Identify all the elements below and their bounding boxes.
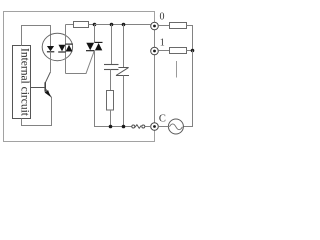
- wire triac MT2 lead: [94, 25, 96, 43]
- wire LED cathode down to transistor collector: [50, 52, 52, 72]
- LED D1: [47, 46, 54, 52]
- wire terminal 0 to load resistor: [158, 25, 169, 27]
- top rail: [95, 24, 151, 26]
- wire bottom rail to terminal C: [145, 126, 151, 128]
- wire internal box top to LED anode: [22, 26, 51, 47]
- wire AC source to terminal C: [158, 126, 168, 128]
- wire terminal 1 to load resistor: [158, 50, 169, 52]
- wire capacitor top lead: [111, 25, 113, 65]
- node junction surge absorber bottom: [122, 125, 126, 129]
- node junction right rail: [191, 49, 195, 53]
- wire terminal chain vertical: [154, 30, 156, 123]
- phototriac U1: [58, 44, 73, 52]
- opto-coupler circle: [42, 33, 72, 60]
- node junction surge absorber top: [122, 23, 126, 27]
- wire phototriac to triac gate: [66, 51, 95, 74]
- terminal C: [151, 123, 159, 131]
- terminal 1: [151, 47, 159, 55]
- wire triac MT1 down to bottom rail: [95, 50, 132, 126]
- resistor load 1: [170, 48, 187, 54]
- node junction R2 / triac MT2: [93, 23, 97, 27]
- svg-text:Internal circuit: Internal circuit: [19, 48, 31, 117]
- resistor load 0: [170, 23, 187, 29]
- internal circuit box: [13, 46, 31, 119]
- surge absorber Z1: [116, 68, 129, 76]
- wire emitter to internal box bottom: [22, 97, 52, 125]
- node junction R3 bottom: [109, 125, 113, 129]
- triac Q2: [86, 42, 103, 50]
- AC source V1: [168, 119, 183, 134]
- wire capacitor to resistor R3: [110, 70, 112, 91]
- wire R3 bottom lead: [110, 110, 112, 127]
- svg-text:1: 1: [160, 38, 165, 49]
- wire load 0 to right rail: [187, 26, 193, 51]
- load squiggle: [135, 125, 141, 129]
- wire right rail down to AC source: [183, 51, 192, 127]
- terminal 0: [151, 22, 159, 30]
- connector open node right: [142, 125, 145, 128]
- connector open node left: [132, 125, 135, 128]
- wire resistor R2 left lead: [66, 24, 74, 26]
- floating dash: [176, 61, 178, 78]
- wire R2 to top rail: [89, 24, 95, 26]
- wire load 1 to right rail: [187, 50, 193, 52]
- phototriac central lead: [65, 25, 67, 74]
- svg-text:C: C: [159, 113, 166, 124]
- resistor R2: [74, 22, 89, 28]
- transistor Q1: [31, 72, 52, 98]
- wire surge absorber top lead: [123, 25, 125, 68]
- capacitor C1: [104, 65, 119, 70]
- resistor R3: [107, 91, 114, 111]
- wire surge absorber bottom lead: [123, 76, 125, 127]
- svg-text:0: 0: [160, 12, 165, 23]
- node junction capacitor top: [110, 23, 114, 27]
- wire outer loop top/left/bottom: [4, 12, 155, 142]
